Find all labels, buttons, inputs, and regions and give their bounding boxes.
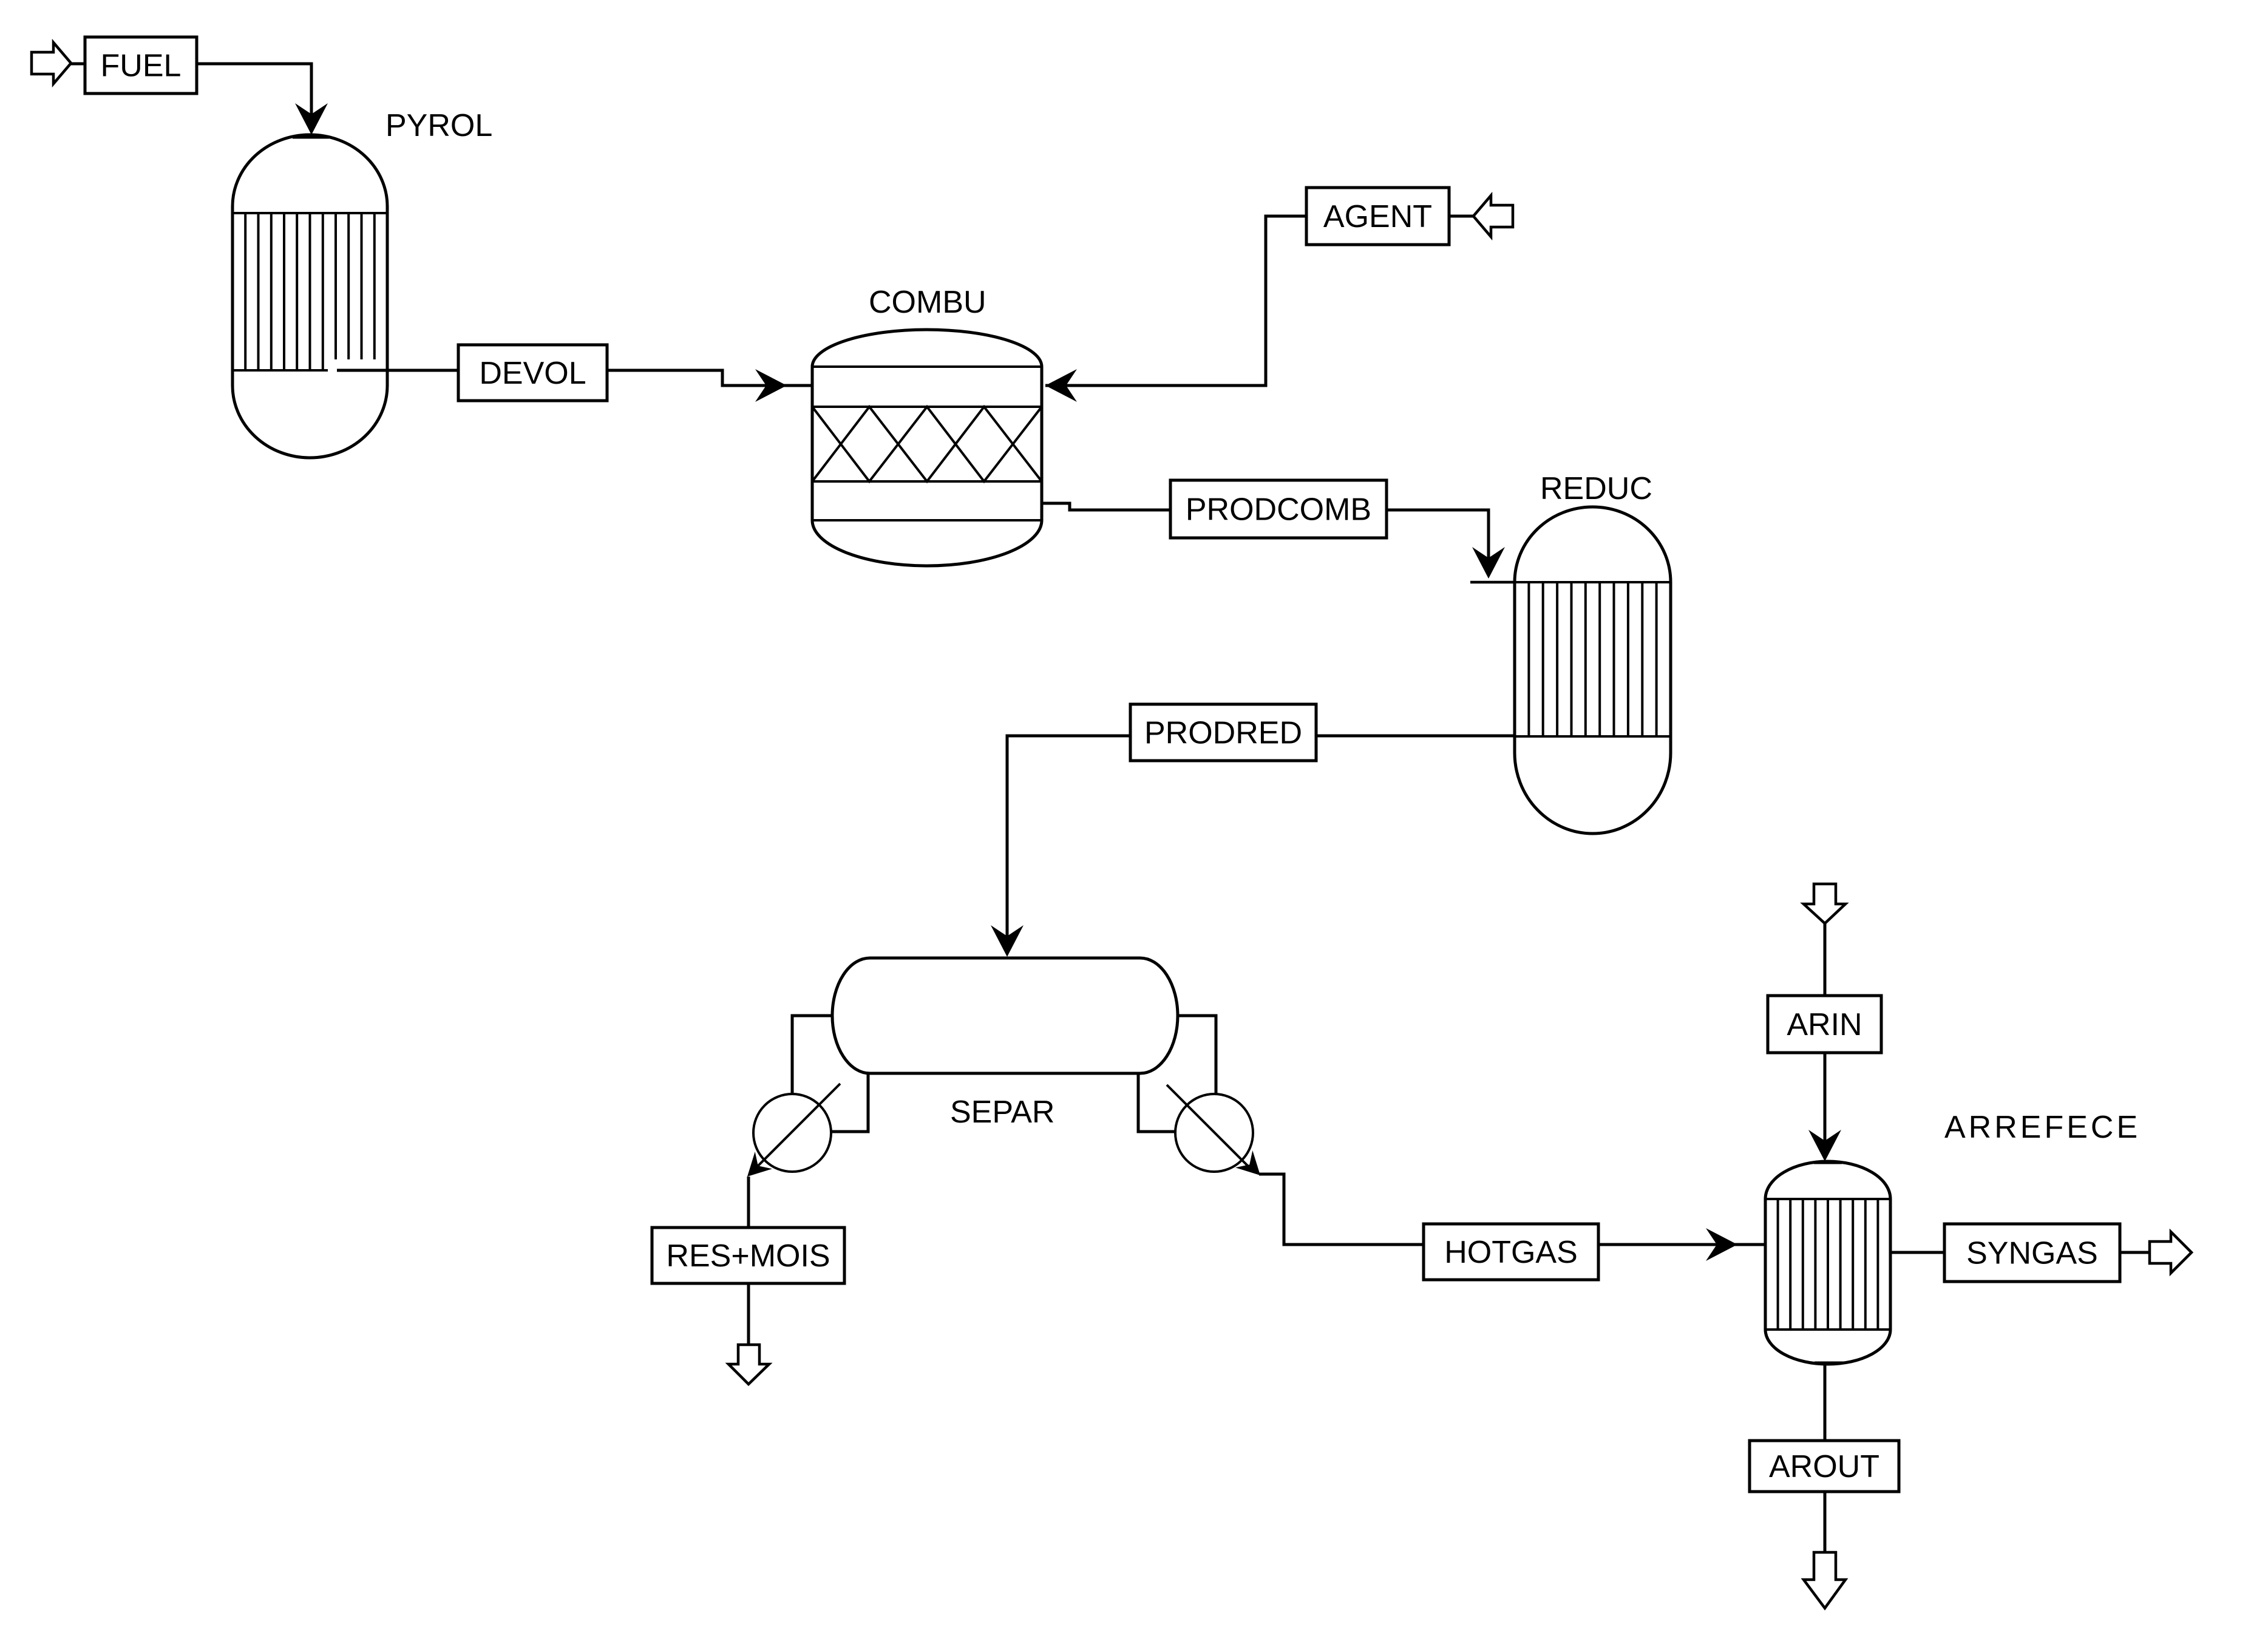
wire valve to HOTGAS <box>1259 1174 1424 1245</box>
svg-text:ARIN: ARIN <box>1787 1007 1862 1042</box>
svg-text:DEVOL: DEVOL <box>479 356 586 391</box>
stream PRODRED <box>1130 704 1316 761</box>
stream HOTGAS <box>1424 1224 1598 1280</box>
svg-text:AGENT: AGENT <box>1323 199 1432 234</box>
svg-text:PYROL: PYROL <box>385 108 492 143</box>
svg-text:ARREFECE: ARREFECE <box>1944 1110 2141 1145</box>
wire inlet to FUEL <box>71 63 85 66</box>
feed arrow ARIN inlet <box>1804 884 1845 923</box>
packing crosshatch COMBU <box>812 407 1042 481</box>
svg-text:FUEL: FUEL <box>101 49 182 84</box>
reactor COMBU <box>812 330 1042 566</box>
stream RES+MOIS <box>652 1228 844 1283</box>
svg-text:COMBU: COMBU <box>869 285 986 320</box>
wire PYROL to DEVOL <box>337 369 458 372</box>
svg-text:SYNGAS: SYNGAS <box>1966 1236 2098 1271</box>
wire FUEL to PYROL <box>197 64 311 129</box>
wire COMBU to PRODCOMB <box>1042 503 1170 510</box>
feed arrow AGENT inlet <box>1449 215 1473 218</box>
reactor REDUC <box>1515 507 1671 834</box>
wire PRODCOMB to REDUC <box>1387 510 1489 572</box>
separator SEPAR <box>832 958 1178 1073</box>
wire PRODRED to SEPAR <box>1007 736 1130 951</box>
wire inlet to ARIN <box>1824 923 1827 996</box>
svg-text:AROUT: AROUT <box>1769 1449 1879 1484</box>
SEPAR left valve piping <box>792 1016 834 1094</box>
wire ARREFECE to AROUT <box>1824 1364 1827 1441</box>
feed arrow FUEL inlet <box>32 42 71 84</box>
svg-text:REDUC: REDUC <box>1540 471 1652 506</box>
stream DEVOL <box>458 345 607 401</box>
product arrow SYNGAS outlet <box>2120 1251 2150 1254</box>
heat exchanger ARREFECE <box>1765 1161 1890 1364</box>
stream SYNGAS <box>1944 1224 2120 1282</box>
svg-text:HOTGAS: HOTGAS <box>1444 1235 1578 1270</box>
svg-text:RES+MOIS: RES+MOIS <box>666 1238 830 1274</box>
valve circle right <box>1175 1094 1253 1172</box>
SEPAR right valve piping <box>1176 1016 1216 1094</box>
stream AGENT <box>1306 188 1449 245</box>
stream PRODCOMB <box>1170 480 1387 538</box>
stream FUEL <box>85 37 197 93</box>
stream AROUT <box>1750 1441 1899 1492</box>
wire DEVOL to COMBU <box>607 370 812 386</box>
wire AGENT to COMBU <box>1045 216 1306 386</box>
svg-text:PRODRED: PRODRED <box>1144 716 1302 751</box>
product arrow AROUT outlet <box>1824 1492 1827 1552</box>
wire ARREFECE to SYNGAS <box>1890 1251 1944 1254</box>
svg-text:SEPAR: SEPAR <box>950 1095 1054 1130</box>
product arrow RES+MOIS outlet <box>747 1283 750 1345</box>
valve circle left <box>753 1094 831 1172</box>
stream ARIN <box>1768 996 1881 1053</box>
reactor PYROL <box>233 135 387 458</box>
wire ARIN to ARREFECE <box>1824 1053 1827 1155</box>
wire valve to RES+MOIS <box>747 1177 750 1228</box>
wire REDUC to PRODRED <box>1316 735 1515 738</box>
wire HOTGAS to ARREFECE <box>1598 1243 1765 1246</box>
svg-text:PRODCOMB: PRODCOMB <box>1186 492 1371 528</box>
